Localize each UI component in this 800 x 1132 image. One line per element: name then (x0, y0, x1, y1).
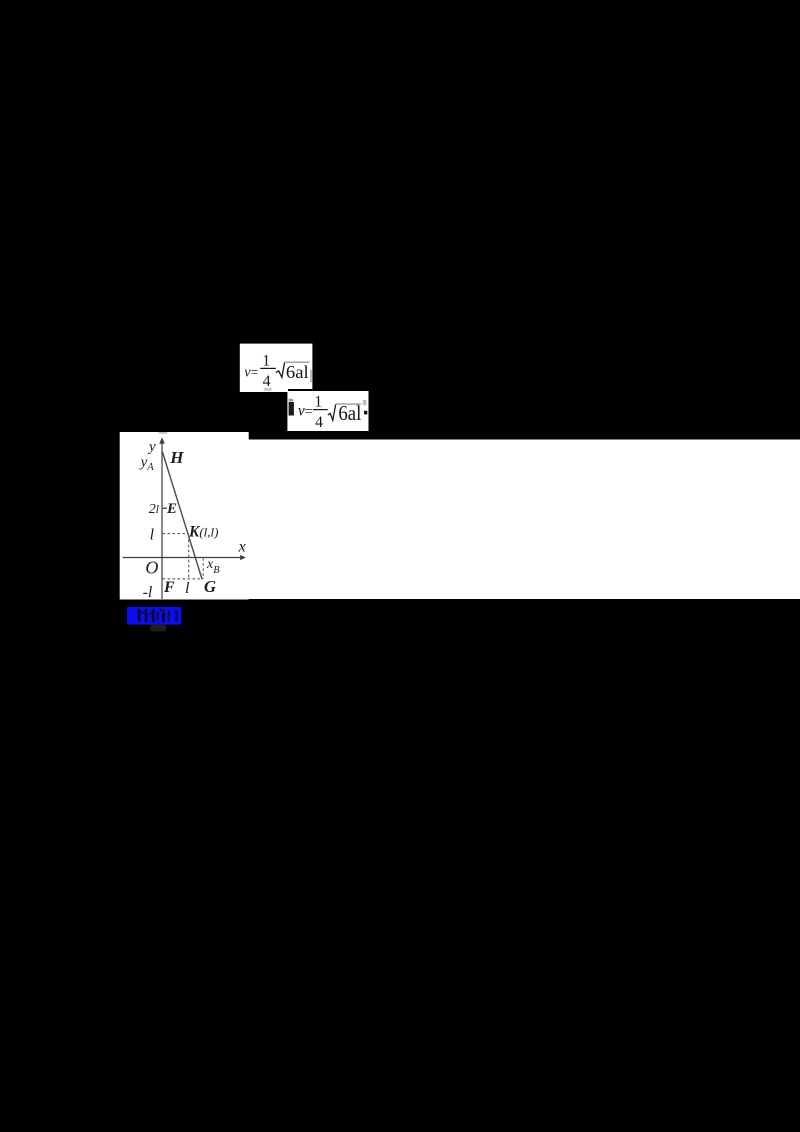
graph (123, 432, 246, 599)
svg-text:K(l,l): K(l,l) (188, 523, 218, 540)
right white band (248, 440, 800, 600)
svg-text:l: l (150, 527, 155, 544)
formula2 fraction bar (313, 409, 328, 410)
formula1 gray caret (310, 370, 311, 383)
formula2 radical sign (328, 404, 336, 420)
dashed vertical K down (188, 535, 190, 579)
svg-text:v=: v= (298, 403, 313, 420)
graph white box (120, 432, 249, 600)
descender below blue block (151, 625, 167, 632)
svg-text:H: H (169, 448, 184, 467)
svg-text:4: 4 (263, 373, 271, 390)
dark glyph marks inside blue block (138, 609, 141, 621)
svg-text:l: l (185, 580, 190, 597)
formula2 left glyph fragment (289, 399, 294, 402)
y-axis arrowhead (159, 437, 165, 444)
svg-text:v=: v= (244, 364, 258, 380)
gray smudge above y axis arrow (159, 432, 168, 433)
svg-text:6al: 6al (286, 362, 309, 382)
svg-text:-l: -l (143, 584, 153, 601)
formula1 fraction bar (260, 368, 276, 369)
formula2 gray bits top right (363, 400, 367, 405)
box1 bottom-right notch (288, 389, 312, 392)
x-axis arrowhead (240, 555, 246, 560)
dashed horizontal bottom F to G (163, 578, 204, 580)
graph labels (139, 439, 246, 601)
svg-text:2l: 2l (149, 502, 159, 517)
svg-text:F: F (163, 579, 175, 596)
svg-text:x: x (238, 539, 246, 556)
formula box 1 background (240, 344, 313, 392)
svg-text:6al: 6al (338, 402, 361, 425)
formula2 radical overline (gray) (336, 403, 362, 405)
formula box 2 background (287, 391, 368, 431)
dashed horizontal at l to K (163, 533, 189, 535)
formula2 black square marker (364, 411, 367, 415)
tick dash before E (163, 507, 167, 509)
formula1 radical overline (gray) (284, 361, 309, 363)
main line H to G (162, 452, 202, 580)
svg-text:1: 1 (262, 353, 270, 370)
svg-text:G: G (204, 577, 216, 596)
formula 1: v = 1/4 sqrt(6al) (244, 353, 311, 391)
svg-text:E: E (166, 501, 177, 517)
y-axis (161, 441, 163, 599)
dashed vertical xB down (202, 558, 204, 579)
svg-text:4: 4 (315, 414, 323, 431)
formula1 gray square under 4 (264, 388, 272, 391)
svg-text:O: O (145, 557, 158, 577)
blue answer label block (127, 607, 181, 631)
svg-text:y: y (147, 439, 156, 455)
svg-text:1: 1 (314, 394, 322, 411)
x-axis (123, 557, 242, 559)
formula 2: v = 1/4 sqrt(6al) (289, 394, 368, 431)
formula1 radical sign (276, 362, 285, 377)
